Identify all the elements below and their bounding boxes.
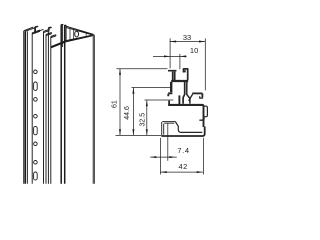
dim 33 line bbox=[170, 41, 205, 43]
arrow 32.5 top bbox=[146, 100, 148, 106]
right rail top face front edge bbox=[66, 35, 94, 42]
svg-text:44.6: 44.6 bbox=[124, 106, 131, 120]
left lip bbox=[168, 93, 172, 96]
hole slot 1 bbox=[34, 82, 38, 90]
right rail tongue edges bbox=[61, 25, 64, 184]
arrow 7.4 far left bbox=[150, 156, 156, 158]
dim 33 ext left bbox=[169, 38, 171, 68]
arrow 10 right outside bbox=[180, 55, 186, 57]
arrow 61 top bbox=[119, 69, 121, 75]
baseline ext bbox=[116, 134, 162, 136]
top face far slot line bbox=[85, 32, 87, 36]
left rail hole channel left edge bbox=[31, 33, 33, 184]
C hook right wall bbox=[201, 93, 203, 97]
left rail cap diagonal bbox=[24, 27, 35, 31]
T post bbox=[168, 71, 176, 80]
stem from band bbox=[183, 82, 185, 104]
hole circle 4 bbox=[34, 142, 38, 146]
svg-text:42: 42 bbox=[179, 162, 188, 171]
right rail tongue cap bbox=[61, 24, 67, 25]
left wall bbox=[170, 82, 172, 92]
inter-rail web top edge bbox=[51, 41, 66, 48]
right rail right edge bbox=[93, 35, 95, 184]
dim 42 ext right bbox=[202, 138, 204, 175]
hole circle 3 bbox=[34, 114, 38, 118]
C hook tip bbox=[200, 96, 203, 98]
hole circle 2 bbox=[34, 98, 38, 102]
arrow 42 right bbox=[197, 171, 203, 173]
arrow 42 left bbox=[161, 171, 167, 173]
svg-text:10: 10 bbox=[190, 46, 198, 55]
left rail channel cap diagonal bbox=[32, 29, 43, 34]
arrow 44.6 bottom bbox=[132, 129, 134, 135]
right wall bbox=[203, 106, 205, 128]
dim 7.4 leader bbox=[150, 156, 177, 158]
C hook strut bbox=[189, 94, 193, 101]
left rail tall prong cap bbox=[48, 27, 51, 28]
left rail back prong bbox=[35, 26, 39, 33]
dim 33 ext right bbox=[204, 38, 206, 90]
dim 61 line bbox=[119, 69, 121, 136]
dim 32.5 ext top bbox=[145, 99, 174, 101]
right post bbox=[184, 69, 188, 80]
svg-text:32.5: 32.5 bbox=[139, 113, 146, 127]
dim 42 line bbox=[161, 171, 203, 173]
left rail right wall edges bbox=[44, 28, 51, 184]
svg-text:7.4: 7.4 bbox=[177, 146, 189, 155]
dim 44.6 line bbox=[132, 88, 134, 136]
left rail outer edge bbox=[24, 31, 26, 184]
hole slot 2 bbox=[34, 126, 38, 134]
left rail right wall cap diagonals bbox=[44, 30, 56, 38]
arrow 10 left outside bbox=[164, 55, 170, 57]
arrow 7.4 right bbox=[169, 156, 175, 158]
C hook top bar bbox=[192, 92, 202, 94]
hole circle 5 bbox=[34, 161, 38, 165]
top band bbox=[171, 80, 188, 82]
svg-text:33: 33 bbox=[183, 33, 191, 42]
dim 10 ext right bbox=[179, 54, 181, 69]
svg-text:61: 61 bbox=[112, 100, 119, 108]
foot step bbox=[175, 122, 202, 133]
J cup right lip bbox=[178, 95, 180, 104]
arrow 33 right bbox=[199, 41, 205, 43]
right rail inner face line bbox=[70, 28, 74, 40]
bottom plate of mid section bbox=[168, 105, 203, 107]
left rail prong nub bbox=[48, 28, 50, 32]
arrow 44.6 top bbox=[132, 88, 134, 94]
J cup left wall bbox=[168, 101, 170, 106]
left rail holes column bbox=[34, 70, 38, 180]
right rail top back edge to vanishing point bbox=[67, 26, 94, 35]
foot top flange bbox=[162, 122, 175, 124]
right rail top hole bbox=[75, 31, 79, 37]
hole circle 1 bbox=[34, 70, 38, 74]
arrow 33 left bbox=[170, 41, 176, 43]
dim 7.4 ext bbox=[167, 123, 169, 161]
dim 10 leader bbox=[153, 55, 187, 57]
dim 32.5 line bbox=[146, 100, 148, 135]
clip bottom curl bbox=[199, 118, 204, 121]
foot left wall bbox=[162, 122, 164, 136]
clip bump bbox=[204, 106, 207, 117]
hole slot 3 bbox=[34, 172, 38, 180]
arrow 32.5 bottom bbox=[146, 129, 148, 135]
dim 61 ext top bbox=[117, 68, 168, 70]
dim 42 ext left bbox=[160, 138, 162, 175]
foot bottom bbox=[161, 127, 204, 137]
left rail inner line bbox=[26, 31, 28, 184]
arrow 61 bottom bbox=[119, 129, 121, 135]
dim 44.6 ext top bbox=[132, 87, 171, 89]
